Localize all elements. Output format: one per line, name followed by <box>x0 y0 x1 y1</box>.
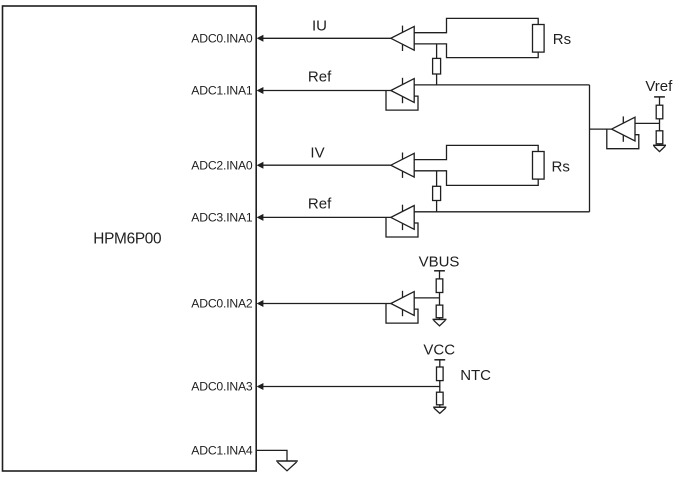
resistor R1 <box>433 58 441 74</box>
wire R7 to node and resistor R8 <box>439 381 441 393</box>
feedback wire U3 output to -input <box>386 91 418 111</box>
resistor R4 (Vref divider bottom) <box>656 131 663 144</box>
wire U4 +input to Rs2 top loop <box>414 145 538 159</box>
buffer U5 (Ref follower) <box>391 205 414 230</box>
svg-text:Rs: Rs <box>552 158 570 175</box>
wire R3 to node and resistor R4 <box>659 119 661 131</box>
wire VBUS bar to resistor R5 <box>439 271 441 279</box>
wire U2 -input to Rs1 bottom loop <box>414 44 538 58</box>
wire R6 to ground <box>439 318 441 320</box>
svg-text:IV: IV <box>310 145 324 162</box>
resistor R5 (VBUS divider top) <box>436 279 443 293</box>
wire Vref rail vertical (node REF) <box>589 85 591 212</box>
wire Vref divider node to U6 +input <box>635 122 660 124</box>
svg-text:IU: IU <box>312 18 327 35</box>
ground at ADC1.INA4 <box>276 461 298 471</box>
svg-text:ADC0.INA3: ADC0.INA3 <box>191 380 253 394</box>
wire R4 to ground <box>659 144 661 146</box>
arrowhead into ADC0.INA0 <box>257 35 264 42</box>
svg-text:ADC2.INA0: ADC2.INA0 <box>191 158 253 172</box>
resistor R3 (Vref divider top) <box>656 105 663 119</box>
ground below R4 <box>653 145 666 151</box>
wire U4 -input to Rs2 bottom loop <box>414 171 538 186</box>
wire U6 output to Vref rail <box>590 128 612 130</box>
svg-text:HPM6P00: HPM6P00 <box>93 231 161 248</box>
op-amp U4 (IV sense amp) <box>391 153 414 178</box>
feedback wire U7 output to -input <box>386 304 418 324</box>
wire ADC0.INA0 to op-amp U2 output <box>259 37 391 39</box>
wire U3 +input to Vref rail (node REF) <box>414 84 589 86</box>
svg-text:ADC0.INA2: ADC0.INA2 <box>191 297 253 311</box>
wire R1 to Ref rail <box>436 74 438 85</box>
arrowhead into ADC2.INA0 <box>257 162 264 169</box>
power symbol Vref (T-bar) <box>654 96 665 98</box>
wire R2 to Ref rail <box>436 201 438 212</box>
svg-text:Vref: Vref <box>645 78 673 95</box>
arrowhead into ADC0.INA3 <box>257 383 264 390</box>
wire R5 to node and resistor R6 <box>439 293 441 306</box>
svg-text:Ref: Ref <box>308 69 332 86</box>
resistor R6 (VBUS divider bottom) <box>436 305 443 318</box>
wire ADC2.INA0 to op-amp U4 output <box>259 164 391 166</box>
svg-text:NTC: NTC <box>460 367 491 384</box>
power symbol VBUS (T-bar) <box>434 270 445 272</box>
feedback wire U5 output to -input <box>386 217 418 237</box>
wire ADC1.INA1 to buffer U3 output <box>259 90 391 92</box>
chip U1 HPM6P00 body <box>3 6 257 471</box>
wire Vref bar to resistor R3 <box>659 97 661 105</box>
thermistor R7 (NTC) <box>437 367 444 381</box>
arrowhead into ADC3.INA1 <box>257 214 264 221</box>
wire U2 +input to Rs1 top loop <box>414 18 538 32</box>
wire junction to resistor R2 <box>436 171 438 187</box>
svg-text:VCC: VCC <box>423 342 455 359</box>
resistor Rs2 (shunt) <box>533 152 545 180</box>
wire VBUS divider node to U7 +input <box>414 297 439 299</box>
wire VCC bar to thermistor R7 <box>439 360 441 367</box>
wire NTC node to ADC0.INA3 <box>259 386 440 388</box>
wire ADC3.INA1 to buffer U5 output <box>259 216 391 218</box>
svg-text:VBUS: VBUS <box>419 254 460 271</box>
buffer U3 (Ref follower) <box>391 78 414 103</box>
resistor Rs1 (shunt) <box>533 25 545 53</box>
svg-text:ADC0.INA0: ADC0.INA0 <box>191 32 253 46</box>
wire U5 +input to Vref rail (node REF) <box>414 211 589 213</box>
svg-text:Rs: Rs <box>553 31 571 48</box>
wire ADC0.INA2 to buffer U7 output <box>259 303 391 305</box>
resistor R2 <box>433 186 441 200</box>
power symbol VCC (T-bar) <box>434 359 445 361</box>
svg-text:ADC3.INA1: ADC3.INA1 <box>191 211 253 225</box>
svg-text:ADC1.INA4: ADC1.INA4 <box>191 444 253 458</box>
arrowhead into ADC0.INA2 <box>257 300 264 307</box>
ground below R6 <box>433 319 447 325</box>
wire junction to resistor R1 <box>436 44 438 59</box>
resistor R8 (NTC divider bottom) <box>437 392 444 405</box>
ground below R8 <box>433 407 446 413</box>
wire R8 to ground <box>439 405 441 407</box>
arrowhead into ADC1.INA1 <box>257 87 264 94</box>
feedback wire U6 output to -input <box>607 129 639 149</box>
svg-text:Ref: Ref <box>308 196 332 213</box>
buffer U7 (VBUS follower) <box>391 291 414 316</box>
wire ADC1.INA4 to ground <box>256 450 287 461</box>
buffer U6 (Vref follower) <box>612 116 635 141</box>
op-amp U2 (IU sense amp) <box>391 26 414 51</box>
svg-text:ADC1.INA1: ADC1.INA1 <box>191 84 253 98</box>
